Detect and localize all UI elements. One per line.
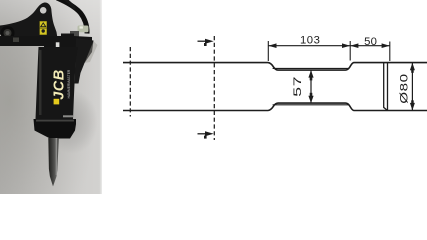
svg-text:57: 57 — [292, 76, 304, 97]
svg-text:HAMMERMASTER: HAMMERMASTER — [67, 69, 71, 98]
svg-text:JCB: JCB — [52, 69, 68, 100]
svg-text:Ø80: Ø80 — [397, 73, 409, 103]
svg-text:103: 103 — [300, 35, 321, 47]
svg-text:50: 50 — [364, 36, 377, 48]
